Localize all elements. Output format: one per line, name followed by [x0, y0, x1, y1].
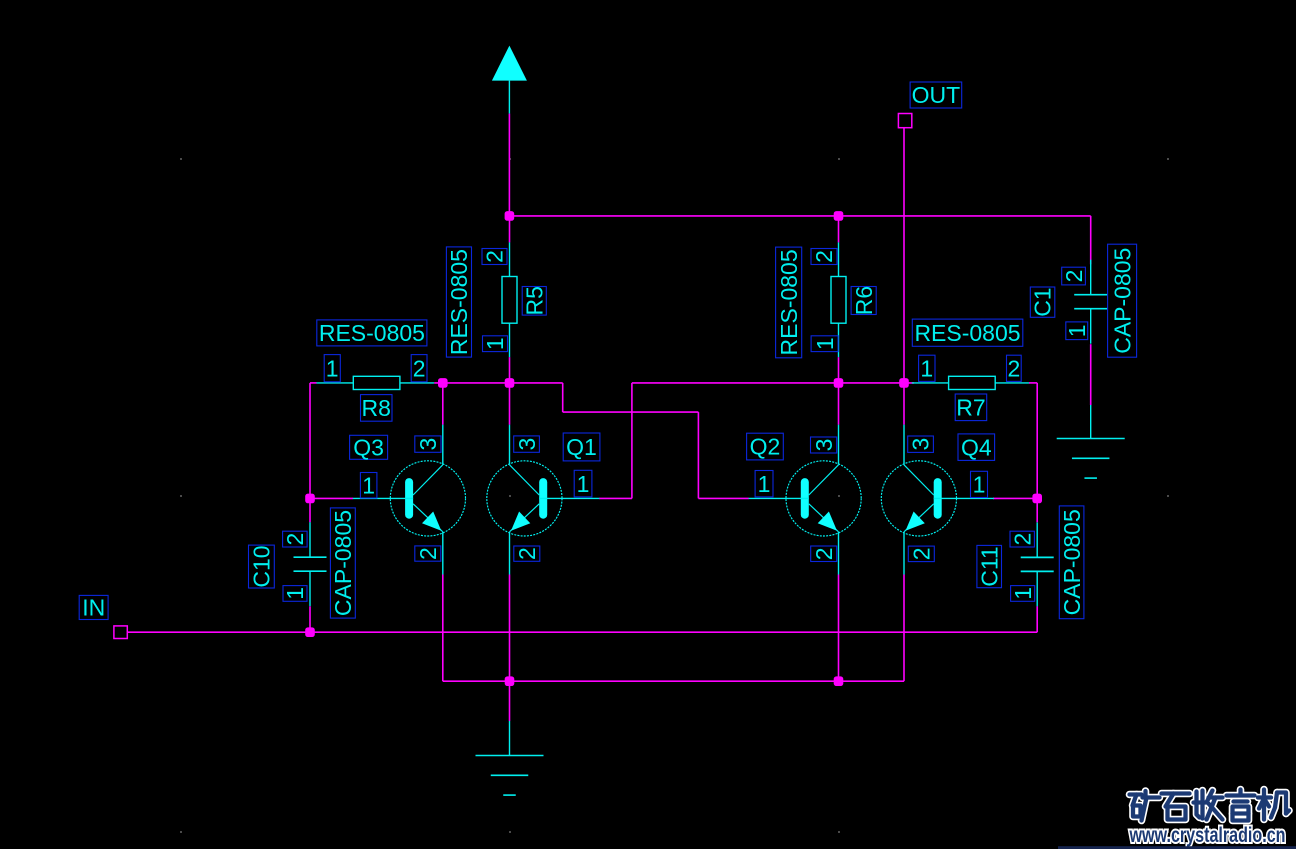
resistor R8 — [317, 376, 435, 389]
port OUT — [898, 114, 911, 128]
svg-text:www.crystalradio.cn: www.crystalradio.cn — [1129, 823, 1286, 847]
svg-text:1: 1 — [1064, 324, 1090, 337]
svg-text:1: 1 — [758, 471, 771, 497]
wire Q1 emitter wire — [509, 575, 511, 682]
capacitor C1 — [1074, 260, 1107, 344]
label Q2 pin 1 — [755, 471, 773, 497]
svg-text:3: 3 — [415, 438, 441, 451]
junction bottom bus / Q1 emitter / GND — [505, 676, 515, 686]
svg-text:CAP-0805: CAP-0805 — [1059, 509, 1085, 615]
wire Q3 collector wire — [442, 383, 444, 425]
svg-text:2: 2 — [1009, 533, 1035, 546]
svg-text:R8: R8 — [361, 395, 390, 421]
label C11 value CAP-0805 — [1059, 506, 1085, 619]
label C10 pin 2 — [282, 531, 308, 547]
label R5 value RES-0805 — [446, 247, 472, 357]
wire Q1 collector wire — [509, 383, 511, 425]
wire step down at x=698.4 — [697, 412, 699, 498]
junction bus / Q3 collector — [438, 378, 448, 388]
svg-text:RES-0805: RES-0805 — [776, 249, 802, 355]
wire IN wire — [127, 631, 1037, 633]
wire bottom bus — [443, 680, 904, 682]
svg-text:1: 1 — [920, 356, 933, 382]
wire C11 top wire — [1036, 498, 1038, 522]
label C1 value CAP-0805 — [1108, 244, 1137, 357]
label R6 designator — [851, 286, 877, 315]
svg-text:Q4: Q4 — [961, 434, 992, 460]
wire Q2 base wire — [698, 497, 748, 499]
svg-text:RES-0805: RES-0805 — [446, 249, 472, 355]
svg-text:C11: C11 — [976, 546, 1002, 587]
label Q1 pin 3 — [514, 436, 540, 452]
svg-text:2: 2 — [811, 250, 837, 263]
svg-text:1: 1 — [362, 472, 375, 498]
svg-text:Q2: Q2 — [750, 434, 781, 460]
resistor R5 — [502, 242, 517, 357]
label IN — [79, 595, 108, 621]
svg-text:2: 2 — [413, 355, 426, 381]
power symbol VCC — [492, 46, 527, 114]
resistor R7 — [912, 376, 1030, 389]
wire C10 bottom wire — [309, 606, 311, 632]
label Q4 pin 1 — [971, 471, 988, 497]
wire OUT vertical — [903, 128, 905, 383]
svg-text:RES-0805: RES-0805 — [914, 320, 1020, 346]
label R6 pin 1 — [811, 336, 838, 352]
label R7 pin 1 — [919, 355, 935, 381]
svg-text:CAP-0805: CAP-0805 — [1109, 248, 1135, 354]
label C1 designator — [1030, 287, 1056, 317]
label Q1 pin 1 — [574, 470, 592, 497]
wire R5 top — [509, 216, 511, 243]
wire R5 bottom — [509, 357, 511, 383]
label OUT — [910, 82, 962, 108]
svg-text:1: 1 — [282, 587, 308, 600]
wire Q4 collector wire — [903, 383, 905, 425]
label C10 pin 1 — [282, 586, 308, 602]
transistor Q4 — [881, 425, 994, 575]
label R5 pin 1 — [482, 336, 508, 352]
label R8 pin 2 — [411, 355, 427, 382]
label Q4 pin 3 — [908, 436, 934, 452]
wire VCC stem — [508, 114, 510, 216]
junction bus / R5 / Q1 collector — [505, 378, 515, 388]
wire Q1 base riser — [631, 383, 633, 499]
label R8 value RES-0805 — [317, 320, 427, 346]
label Q2 pin 2 — [811, 546, 837, 562]
label Q3 designator — [350, 435, 388, 461]
wire left bus segment A — [310, 382, 317, 384]
label R7 designator — [955, 394, 987, 421]
svg-text:Q1: Q1 — [566, 434, 597, 460]
junction IN / C10 — [305, 627, 315, 637]
svg-text:IN: IN — [82, 595, 105, 621]
wire ground stem wire — [509, 681, 511, 721]
svg-text:2: 2 — [514, 547, 540, 560]
wire R6 bottom — [838, 357, 840, 383]
wire Q2 collector wire — [838, 383, 840, 425]
wire step down at x=562.7 — [562, 383, 564, 412]
svg-text:1: 1 — [577, 471, 590, 497]
label Q1 designator — [563, 433, 600, 461]
junction Q3 base / C10 — [305, 494, 315, 504]
svg-text:1: 1 — [973, 472, 986, 498]
wire right bus — [632, 382, 914, 384]
svg-text:OUT: OUT — [912, 82, 961, 108]
label Q4 pin 2 — [908, 546, 934, 562]
svg-text:1: 1 — [812, 337, 838, 350]
svg-text:C1: C1 — [1030, 287, 1056, 316]
junction Q4 base / C11 / R7 — [1032, 494, 1042, 504]
wire Q1 base wire — [599, 497, 632, 499]
wire Q4 base wire — [993, 497, 1037, 499]
svg-text:1: 1 — [1010, 587, 1036, 600]
label Q1 pin 2 — [514, 546, 540, 561]
label C1 pin 2 — [1061, 267, 1087, 285]
svg-text:C10: C10 — [249, 545, 275, 587]
label Q2 designator — [747, 433, 784, 460]
wire left vertical x=310 — [309, 383, 311, 499]
wire R6 top — [838, 216, 840, 243]
label C11 pin 2 — [1009, 531, 1035, 547]
wire step horizontal y=412 — [563, 411, 699, 413]
label Q3 pin 2 — [415, 546, 441, 561]
watermark crystalradio logo — [1058, 790, 1296, 849]
svg-text:2: 2 — [482, 250, 508, 263]
svg-text:R6: R6 — [851, 286, 877, 315]
junction bottom bus / Q2 emitter — [834, 676, 844, 686]
svg-text:1: 1 — [482, 337, 508, 350]
label C11 designator — [976, 545, 1002, 587]
junction top bus / R5 — [505, 211, 515, 221]
svg-text:2: 2 — [415, 547, 441, 560]
label R5 designator — [521, 286, 547, 315]
wire R7 pin2 to corner — [1029, 382, 1037, 384]
transistor Q3 — [353, 425, 466, 575]
label C11 pin 1 — [1010, 586, 1036, 602]
svg-text:1: 1 — [326, 355, 339, 381]
wire C1 bottom wire — [1090, 344, 1092, 405]
port IN — [114, 626, 127, 639]
wire Q2 emitter wire — [838, 575, 840, 682]
svg-text:2: 2 — [282, 533, 308, 546]
label Q2 pin 3 — [811, 437, 837, 453]
label C1 pin 1 — [1064, 322, 1090, 340]
wire Q4 emitter wire — [903, 575, 905, 682]
svg-text:2: 2 — [811, 547, 837, 560]
wire C1 drop from top bus — [1090, 216, 1092, 264]
wire C11 bottom wire — [1036, 606, 1038, 632]
svg-text:R5: R5 — [521, 286, 547, 315]
svg-text:CAP-0805: CAP-0805 — [330, 510, 356, 616]
svg-text:R7: R7 — [956, 395, 985, 421]
capacitor C11 — [1021, 522, 1054, 606]
junction top bus / R6 — [834, 211, 844, 221]
label R7 pin 2 — [1007, 355, 1022, 381]
label R6 value RES-0805 — [776, 247, 802, 358]
svg-text:Q3: Q3 — [353, 435, 384, 461]
transistor Q1 — [487, 425, 600, 575]
wire left bus segment B — [434, 382, 563, 384]
transistor Q2 — [749, 425, 862, 575]
junction bus / R6 / Q2 collector — [834, 378, 844, 388]
svg-text:2: 2 — [1061, 270, 1087, 283]
wire top bus — [509, 215, 1090, 217]
label R5 pin 2 — [482, 249, 508, 265]
capacitor C10 — [294, 522, 327, 606]
label Q4 designator — [958, 434, 995, 461]
label R7 value RES-0805 — [912, 319, 1023, 346]
label C10 value CAP-0805 — [330, 508, 356, 618]
label R6 pin 2 — [811, 249, 837, 265]
label C10 designator — [248, 545, 274, 588]
wire Q3 emitter wire — [442, 575, 444, 682]
label Q3 pin 1 — [360, 472, 377, 498]
svg-text:2: 2 — [909, 547, 935, 560]
label Q3 pin 3 — [415, 436, 441, 452]
svg-text:3: 3 — [514, 438, 540, 451]
svg-text:3: 3 — [908, 438, 934, 451]
wire C10 top wire — [309, 498, 311, 522]
svg-text:2: 2 — [1008, 356, 1021, 382]
wire R7 corner down to Q4 base node — [1036, 383, 1038, 499]
ground GND bottom — [476, 721, 544, 795]
svg-text:RES-0805: RES-0805 — [319, 320, 425, 346]
wire Q3 base wire — [310, 497, 353, 499]
ground GND right — [1057, 405, 1125, 478]
svg-text:3: 3 — [811, 439, 837, 452]
resistor R6 — [831, 242, 846, 357]
label R8 pin 1 — [324, 355, 340, 382]
junction bus / OUT / Q4 collector — [899, 378, 909, 388]
label R8 designator — [361, 395, 393, 422]
